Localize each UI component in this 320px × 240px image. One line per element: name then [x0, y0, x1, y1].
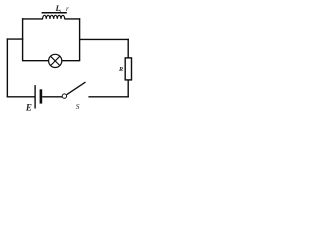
lamp cross line 2 [51, 56, 60, 65]
lamp cross line 1 [51, 56, 60, 65]
wire: left bus vertical [22, 18, 24, 61]
wire: bottom rail left segment [7, 96, 35, 98]
svg-text:S: S [76, 102, 80, 111]
svg-text:E: E [25, 103, 32, 113]
wire: switch to right edge segment [88, 96, 128, 98]
wire: left feed connector [7, 38, 24, 40]
wire: lamp branch left segment [23, 60, 49, 62]
wire: right edge lower vertical [127, 80, 129, 97]
wire: lamp branch right segment [62, 60, 80, 62]
wire: right feed connector [79, 38, 128, 40]
wire: outer left edge vertical [6, 38, 8, 97]
battery long plate [34, 85, 36, 108]
svg-text:,: , [59, 4, 61, 13]
lamp circle [49, 54, 62, 67]
wire: right bus vertical [79, 18, 81, 61]
resistor R body [125, 58, 131, 80]
battery short thick plate [40, 89, 43, 103]
svg-text:R: R [118, 66, 123, 73]
wire: right edge upper vertical [127, 39, 129, 58]
switch lever [67, 82, 86, 95]
wire: battery to switch segment [42, 96, 62, 98]
wire: top branch left segment [22, 18, 43, 20]
inductor iron core bar [42, 12, 67, 14]
inductor L coil humps [43, 15, 65, 19]
switch pivot circle [62, 94, 66, 98]
wire: top branch right segment [64, 18, 80, 20]
svg-text:r: r [66, 5, 69, 13]
